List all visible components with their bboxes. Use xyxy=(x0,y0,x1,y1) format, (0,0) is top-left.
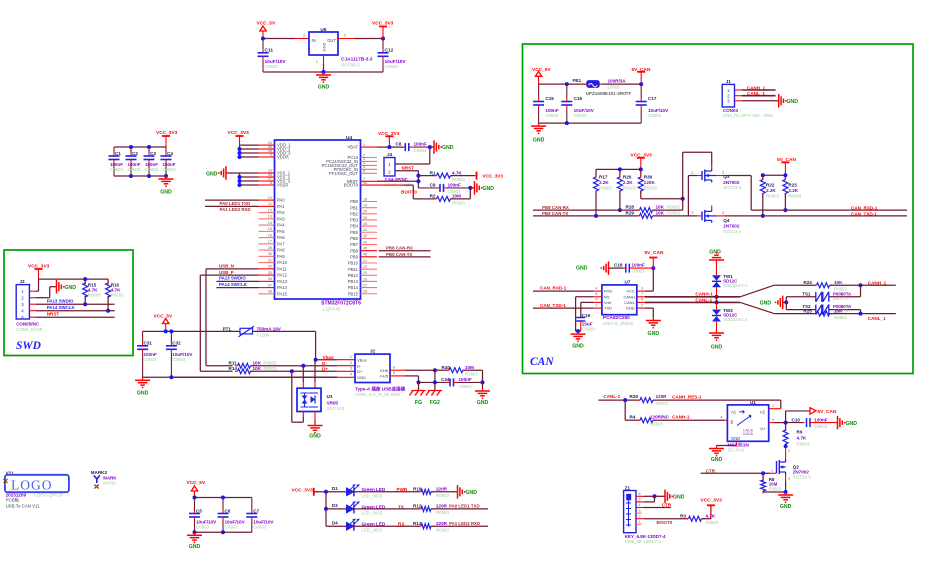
svg-text:5V_CAN: 5V_CAN xyxy=(818,409,837,415)
wire xyxy=(395,147,430,164)
wire xyxy=(316,359,338,361)
svg-text:C31: C31 xyxy=(144,340,153,345)
svg-text:PA0: PA0 xyxy=(277,198,285,203)
net label CAN_RXD-1 (U7) xyxy=(540,285,567,290)
svg-text:3: 3 xyxy=(350,367,352,371)
svg-text:R0603: R0603 xyxy=(111,293,124,298)
pin 3 of Z1 xyxy=(636,509,642,513)
svg-text:GND: GND xyxy=(483,186,495,192)
svg-text:3: 3 xyxy=(639,509,641,513)
fuse PT1 xyxy=(223,326,282,337)
capacitor C34 xyxy=(419,377,483,389)
svg-text:PB6: PB6 xyxy=(350,236,359,241)
svg-text:41: 41 xyxy=(363,228,367,232)
pin 20 (PB2) of U4 xyxy=(350,210,377,217)
pin 29 (PA8) of U4 xyxy=(259,246,286,253)
value label xyxy=(321,301,361,307)
svg-text:45: 45 xyxy=(363,247,367,251)
svg-text:Q4: Q4 xyxy=(723,218,730,223)
gdt TS2 xyxy=(786,304,860,315)
ground (TVS bottom) xyxy=(709,330,724,351)
svg-text:1: 1 xyxy=(363,143,365,147)
capacitor C10 xyxy=(786,417,837,429)
resistor R25 xyxy=(803,308,862,319)
ground (Z1) xyxy=(665,490,685,504)
svg-text:LED_0603: LED_0603 xyxy=(362,510,383,515)
pin 2 of J1 wire xyxy=(735,95,776,97)
pin 31 (PA10) of U4 xyxy=(259,258,288,265)
connector J3 xyxy=(16,279,42,332)
svg-text:R23: R23 xyxy=(788,183,797,188)
resistor R24 xyxy=(803,280,862,291)
ground (U3) xyxy=(308,423,323,440)
footprint label U7 xyxy=(603,321,633,326)
svg-text:R22: R22 xyxy=(766,183,775,188)
wire CAN-TX row xyxy=(533,215,640,217)
svg-text:29: 29 xyxy=(268,246,272,250)
wire xyxy=(355,37,385,41)
svg-text:C0603: C0603 xyxy=(253,525,266,530)
svg-text:100R/3A: 100R/3A xyxy=(608,79,627,84)
svg-text:C0603: C0603 xyxy=(385,64,399,69)
net label RX xyxy=(354,522,420,527)
pin 2 (GND) of U7 xyxy=(637,303,645,308)
svg-text:C7: C7 xyxy=(253,508,259,513)
svg-text:CAN_RXD-1: CAN_RXD-1 xyxy=(851,205,878,210)
svg-text:PT1: PT1 xyxy=(223,326,232,331)
svg-text:R0603: R0603 xyxy=(264,366,277,371)
svg-text:R17: R17 xyxy=(599,174,608,179)
svg-text:38: 38 xyxy=(268,290,272,294)
svg-text:BOOT0: BOOT0 xyxy=(401,190,417,195)
net label PA13 SWDIO (SWD) xyxy=(47,298,74,303)
pin 25 (PB12) of U4 xyxy=(348,271,377,278)
svg-text:8: 8 xyxy=(595,292,597,296)
svg-text:BOOT0: BOOT0 xyxy=(344,183,359,188)
capacitor C32 xyxy=(166,331,194,377)
svg-text:R11: R11 xyxy=(229,360,238,365)
svg-text:R30: R30 xyxy=(644,174,653,179)
svg-text:2.2K: 2.2K xyxy=(788,188,798,193)
svg-text:7: 7 xyxy=(641,292,643,296)
svg-text:C10: C10 xyxy=(792,417,801,422)
wire D- to U3 xyxy=(302,366,304,389)
svg-text:CON2_54-5P: CON2_54-5P xyxy=(16,327,42,332)
wire xyxy=(193,530,252,534)
pin 4 (RXD) of U7 xyxy=(594,286,602,291)
svg-text:FG2: FG2 xyxy=(430,400,440,406)
svg-text:PB7: PB7 xyxy=(350,242,359,247)
value label U1 xyxy=(728,442,750,448)
svg-text:GND: GND xyxy=(673,495,685,501)
net label PWR xyxy=(354,487,420,492)
svg-text:R0603: R0603 xyxy=(834,315,847,320)
svg-text:C0603: C0603 xyxy=(632,269,645,274)
wire xyxy=(576,297,594,331)
svg-text:100nF: 100nF xyxy=(632,263,645,268)
net label D+ xyxy=(322,367,328,372)
svg-text:2N7002: 2N7002 xyxy=(723,180,740,185)
svg-text:TS1: TS1 xyxy=(802,291,811,296)
ground (USB caps) xyxy=(135,377,150,396)
svg-text:R0603: R0603 xyxy=(650,422,663,427)
svg-text:PB5: PB5 xyxy=(350,230,359,235)
pin 43 (PB7) of U4 xyxy=(350,240,377,247)
pin 28 (PB15) of U4 xyxy=(348,290,377,297)
svg-text:27: 27 xyxy=(363,283,367,287)
svg-text:GND: GND xyxy=(648,331,660,337)
net label PA0 LED1 TXD (LED) xyxy=(431,504,488,509)
svg-text:R12: R12 xyxy=(413,504,422,509)
svg-text:VBAT: VBAT xyxy=(347,145,358,150)
ground (MCU VSS) xyxy=(206,166,240,180)
wire xyxy=(481,370,485,388)
svg-text:CAN_RXD-1: CAN_RXD-1 xyxy=(540,285,567,290)
wire xyxy=(598,398,639,402)
svg-text:2: 2 xyxy=(788,449,790,453)
svg-text:PA10: PA10 xyxy=(277,260,288,265)
svg-text:PA9: PA9 xyxy=(277,254,285,259)
wire xyxy=(645,266,655,291)
tvs diode TW2 xyxy=(712,302,748,330)
svg-text:PB15: PB15 xyxy=(348,291,359,296)
SWD title xyxy=(16,340,42,352)
wire xyxy=(596,167,643,171)
svg-text:PF1/OSC_OUT: PF1/OSC_OUT xyxy=(329,171,359,176)
svg-text:R0603: R0603 xyxy=(644,185,657,190)
svg-text:5V_CAN: 5V_CAN xyxy=(645,250,664,256)
wire xyxy=(860,285,862,297)
svg-text:VCC_3V3: VCC_3V3 xyxy=(483,173,504,178)
ground (C9) xyxy=(470,181,494,195)
svg-text:VCC_5V: VCC_5V xyxy=(154,313,173,319)
pin 1 (TXD) of U7 xyxy=(594,303,602,308)
svg-text:31: 31 xyxy=(268,258,272,262)
net label USB_N xyxy=(206,264,259,269)
svg-text:CANH_RES-1: CANH_RES-1 xyxy=(672,394,702,399)
pin 1 (GND) of U6 xyxy=(323,55,325,64)
svg-text:CON05/NC: CON05/NC xyxy=(16,321,40,326)
can transceiver U7 xyxy=(602,280,637,315)
pin 33 (PA12) of U4 xyxy=(259,271,288,278)
pin 6 (KH6) of J2 xyxy=(390,366,405,371)
pin 3 (VCC) of U7 xyxy=(637,286,645,291)
wire xyxy=(761,173,788,177)
svg-text:PA13: PA13 xyxy=(277,279,288,284)
svg-text:PA15: PA15 xyxy=(277,291,288,296)
svg-text:15: 15 xyxy=(268,227,272,231)
svg-text:1: 1 xyxy=(350,355,352,359)
svg-text:R4: R4 xyxy=(630,414,636,419)
svg-text:U4: U4 xyxy=(346,135,352,141)
svg-text:22: 22 xyxy=(363,265,367,269)
ground xyxy=(316,72,331,91)
capacitor C7 xyxy=(246,498,274,533)
pin 35 (VSS_2) of U4 xyxy=(259,173,291,180)
net label USB_P xyxy=(200,270,258,275)
ground (C18) xyxy=(576,261,624,275)
wire BOOT0 xyxy=(377,185,413,199)
svg-text:PA4: PA4 xyxy=(277,223,285,228)
pin 5 (KH5) of J2 xyxy=(390,371,405,376)
power flag VCC_3V3 (cap bank) xyxy=(156,130,178,147)
svg-text:100nF: 100nF xyxy=(814,417,827,422)
wire xyxy=(780,400,782,409)
svg-text:C0603: C0603 xyxy=(814,424,827,429)
svg-text:GND: GND xyxy=(711,345,723,351)
pin 8 (RS) of U7 xyxy=(594,292,602,297)
svg-text:3: 3 xyxy=(722,211,724,215)
pin 1 of Z1 xyxy=(636,520,642,524)
svg-text:100nF: 100nF xyxy=(459,377,472,382)
svg-text:PA1: PA1 xyxy=(277,204,285,209)
svg-text:LOGO-QRV1P: LOGO-QRV1P xyxy=(34,492,63,497)
ground (C19/RS) xyxy=(571,331,586,349)
net label PB8 CAN-RX xyxy=(379,246,431,251)
svg-text:C9: C9 xyxy=(430,183,436,188)
pin 40 (PB4) of U4 xyxy=(350,222,377,229)
wire xyxy=(860,310,862,314)
svg-text:C12: C12 xyxy=(385,48,394,54)
svg-text:C6: C6 xyxy=(225,508,231,513)
pin 13 (PA3) of U4 xyxy=(259,215,286,222)
CAN section box xyxy=(523,44,914,374)
wire CTR xyxy=(701,471,770,475)
net label CANH-1 (term) xyxy=(672,414,690,419)
capacitor C8 xyxy=(396,142,430,153)
pin 10 (PA0) of U4 xyxy=(259,196,286,203)
svg-text:R24: R24 xyxy=(803,280,812,285)
svg-text:10K: 10K xyxy=(834,280,843,285)
svg-text:LED_0603: LED_0603 xyxy=(362,493,383,498)
resistor R12 xyxy=(413,504,449,516)
svg-text:R0603: R0603 xyxy=(667,210,680,215)
svg-text:1: 1 xyxy=(595,303,597,307)
svg-text:10M: 10M xyxy=(452,194,461,199)
wire xyxy=(533,290,594,292)
pin 2 (GND) of U1 xyxy=(717,441,742,446)
svg-text:D1: D1 xyxy=(332,486,338,491)
power flag VCC_3V3 (MCU VDD) xyxy=(228,130,250,145)
power flag VCC_3V3 (R3) xyxy=(701,497,723,518)
wire xyxy=(405,376,421,385)
svg-text:6: 6 xyxy=(641,298,643,302)
frame ground FG xyxy=(410,391,426,407)
resistor R29 xyxy=(626,210,698,218)
capacitor C17 xyxy=(636,84,669,123)
svg-text:40: 40 xyxy=(363,222,367,226)
svg-text:42: 42 xyxy=(363,234,367,238)
svg-text:L0805: L0805 xyxy=(608,84,621,89)
wire xyxy=(533,307,594,309)
svg-text:PB14: PB14 xyxy=(348,285,359,290)
resistor R11 xyxy=(206,360,303,368)
svg-text:SW6_8K-13DD7-4: SW6_8K-13DD7-4 xyxy=(625,539,662,544)
pin 1 of J1 wire xyxy=(735,89,776,91)
svg-text:20: 20 xyxy=(363,210,367,214)
svg-text:CN2_R1-3P-F-180 - SMD: CN2_R1-3P-F-180 - SMD xyxy=(723,113,773,118)
svg-text:Z1: Z1 xyxy=(625,486,631,491)
net label CAN_RXD-1 xyxy=(851,205,878,210)
svg-text:R9: R9 xyxy=(797,429,803,434)
svg-text:VCC_5V: VCC_5V xyxy=(532,67,551,73)
capacitor C2 xyxy=(126,147,141,176)
wire xyxy=(763,481,788,494)
wire diagonal CANL xyxy=(740,302,816,313)
svg-text:C0603: C0603 xyxy=(128,167,141,172)
pin 8 (VSSA) of U4 xyxy=(259,181,289,188)
resistor R20 xyxy=(617,169,636,212)
svg-text:220R: 220R xyxy=(436,504,448,509)
svg-text:1: 1 xyxy=(639,520,641,524)
svg-text:C5: C5 xyxy=(196,508,202,513)
wire xyxy=(539,121,642,125)
svg-text:GND: GND xyxy=(572,344,584,350)
svg-text:5: 5 xyxy=(639,498,641,502)
svg-text:C15: C15 xyxy=(545,96,554,101)
wire xyxy=(405,368,437,372)
svg-text:CANL: CANL xyxy=(624,300,635,305)
resistor R3 xyxy=(644,514,719,525)
svg-text:VBus: VBus xyxy=(357,358,367,363)
wire xyxy=(143,329,240,333)
svg-text:GND: GND xyxy=(533,138,545,144)
svg-text:PA0 LED1 TXD: PA0 LED1 TXD xyxy=(449,504,480,509)
wire xyxy=(602,82,643,86)
svg-text:NRST: NRST xyxy=(47,311,60,316)
svg-text:USB_N: USB_N xyxy=(219,264,234,269)
svg-text:5: 5 xyxy=(393,371,395,375)
svg-text:C0603: C0603 xyxy=(574,113,587,118)
wire GND rail to J2 xyxy=(171,376,337,378)
svg-text:LED_0603: LED_0603 xyxy=(362,528,383,533)
svg-text:R0603: R0603 xyxy=(623,185,636,190)
power flag 5V_CAN (U7) xyxy=(645,250,664,268)
svg-text:C16: C16 xyxy=(574,96,583,101)
svg-text:8: 8 xyxy=(270,181,272,185)
pin 19 (PB1) of U4 xyxy=(350,203,377,210)
wire gate Q3 xyxy=(688,176,697,216)
wire xyxy=(418,382,420,390)
svg-text:R0603: R0603 xyxy=(452,177,465,182)
resistor R15 xyxy=(83,279,102,304)
pin 46 (PB9) of U4 xyxy=(350,253,377,260)
svg-text:GND: GND xyxy=(160,190,172,196)
svg-text:PB13: PB13 xyxy=(348,279,359,284)
pin 4 of J3 wire xyxy=(29,309,114,313)
pin 2 of J3 xyxy=(29,287,56,298)
pin 9 (VDDA) of U4 xyxy=(259,153,289,160)
svg-text:A1: A1 xyxy=(731,410,737,415)
net label CANL-1 (term) xyxy=(603,394,620,399)
svg-text:R29: R29 xyxy=(626,210,635,215)
svg-text:R0603: R0603 xyxy=(436,528,449,533)
resistor R16 xyxy=(106,279,125,311)
svg-text:FG: FG xyxy=(415,400,422,406)
svg-text:D-: D- xyxy=(357,363,362,368)
analog switch U1 xyxy=(727,400,768,441)
svg-text:R0603: R0603 xyxy=(264,360,277,365)
wire CANH-1 xyxy=(645,295,740,299)
microcontroller U4 STM32F072C8T6 xyxy=(275,135,361,299)
frame ground FG2 xyxy=(426,391,442,407)
svg-text:IN: IN xyxy=(312,38,316,43)
resistor R8 xyxy=(761,473,782,493)
net label PA13 SWDIO xyxy=(217,276,259,282)
ground (J3 pin2) xyxy=(57,280,77,294)
capacitor C31 xyxy=(137,331,157,377)
svg-text:2.2K: 2.2K xyxy=(766,188,776,193)
svg-text:PB4: PB4 xyxy=(350,224,359,229)
svg-text:10K: 10K xyxy=(834,308,843,313)
power flag VCC_3V3 (SWD) xyxy=(28,263,50,279)
svg-text:2NR-CA: 2NR-CA xyxy=(833,296,849,301)
svg-text:19: 19 xyxy=(363,203,367,207)
capacitor C5 xyxy=(189,498,217,533)
svg-text:USB2_0-A_M_90 SMD: USB2_0-A_M_90 SMD xyxy=(355,392,400,397)
svg-text:GND: GND xyxy=(477,400,489,406)
ground xyxy=(159,176,174,196)
svg-text:GND: GND xyxy=(711,457,723,463)
svg-text:10K: 10K xyxy=(656,205,665,210)
svg-text:220R: 220R xyxy=(436,521,448,526)
wire xyxy=(539,82,586,86)
svg-text:25: 25 xyxy=(363,271,367,275)
svg-text:17: 17 xyxy=(268,240,272,244)
resistor R17 xyxy=(594,169,613,218)
wire CAN-RX row xyxy=(533,209,640,211)
voltage regulator U6 xyxy=(309,27,373,68)
resistor R26 xyxy=(630,394,781,406)
capacitor C19 xyxy=(576,302,595,331)
pin 34 (PA13) of U4 xyxy=(259,277,288,284)
svg-text:GND: GND xyxy=(357,375,366,380)
svg-text:R13: R13 xyxy=(413,521,422,526)
CAN title xyxy=(530,356,554,368)
pin 3 of J1 wire xyxy=(735,100,779,102)
svg-text:2: 2 xyxy=(639,514,641,518)
svg-text:GND: GND xyxy=(731,436,740,441)
pin 1 (VBAT) of U4 xyxy=(347,143,377,150)
svg-text:SOT23-3: SOT23-3 xyxy=(723,185,741,190)
svg-text:CANL_1: CANL_1 xyxy=(868,316,886,321)
power flag VCC_3V3 (LEDs) xyxy=(292,487,317,496)
resistor R4 xyxy=(630,414,725,426)
wire xyxy=(625,400,639,420)
svg-text:J4: J4 xyxy=(387,152,393,157)
transistor Q4 xyxy=(691,206,741,234)
svg-text:LQFP48: LQFP48 xyxy=(323,307,341,312)
svg-text:120R/NC: 120R/NC xyxy=(650,414,670,419)
svg-text:6: 6 xyxy=(639,492,641,496)
svg-text:R19: R19 xyxy=(413,487,422,492)
svg-text:R0603: R0603 xyxy=(436,493,449,498)
pin 24 (VDD_1) of U4 xyxy=(259,141,292,148)
svg-text:R0603: R0603 xyxy=(769,487,782,492)
svg-text:PB10: PB10 xyxy=(348,261,359,266)
switch Z1 xyxy=(624,486,666,545)
svg-text:2.2K: 2.2K xyxy=(599,180,609,185)
svg-text:SOT23-3: SOT23-3 xyxy=(793,475,811,480)
pin 4 (B) of U1 xyxy=(720,416,727,421)
svg-text:PA6: PA6 xyxy=(277,235,285,240)
svg-text:USB_P: USB_P xyxy=(219,270,234,275)
svg-text:TX: TX xyxy=(398,504,405,509)
svg-text:PB2: PB2 xyxy=(350,211,359,216)
net label D- xyxy=(322,361,327,366)
svg-text:FB1: FB1 xyxy=(573,78,582,83)
svg-text:C0603: C0603 xyxy=(582,326,595,331)
